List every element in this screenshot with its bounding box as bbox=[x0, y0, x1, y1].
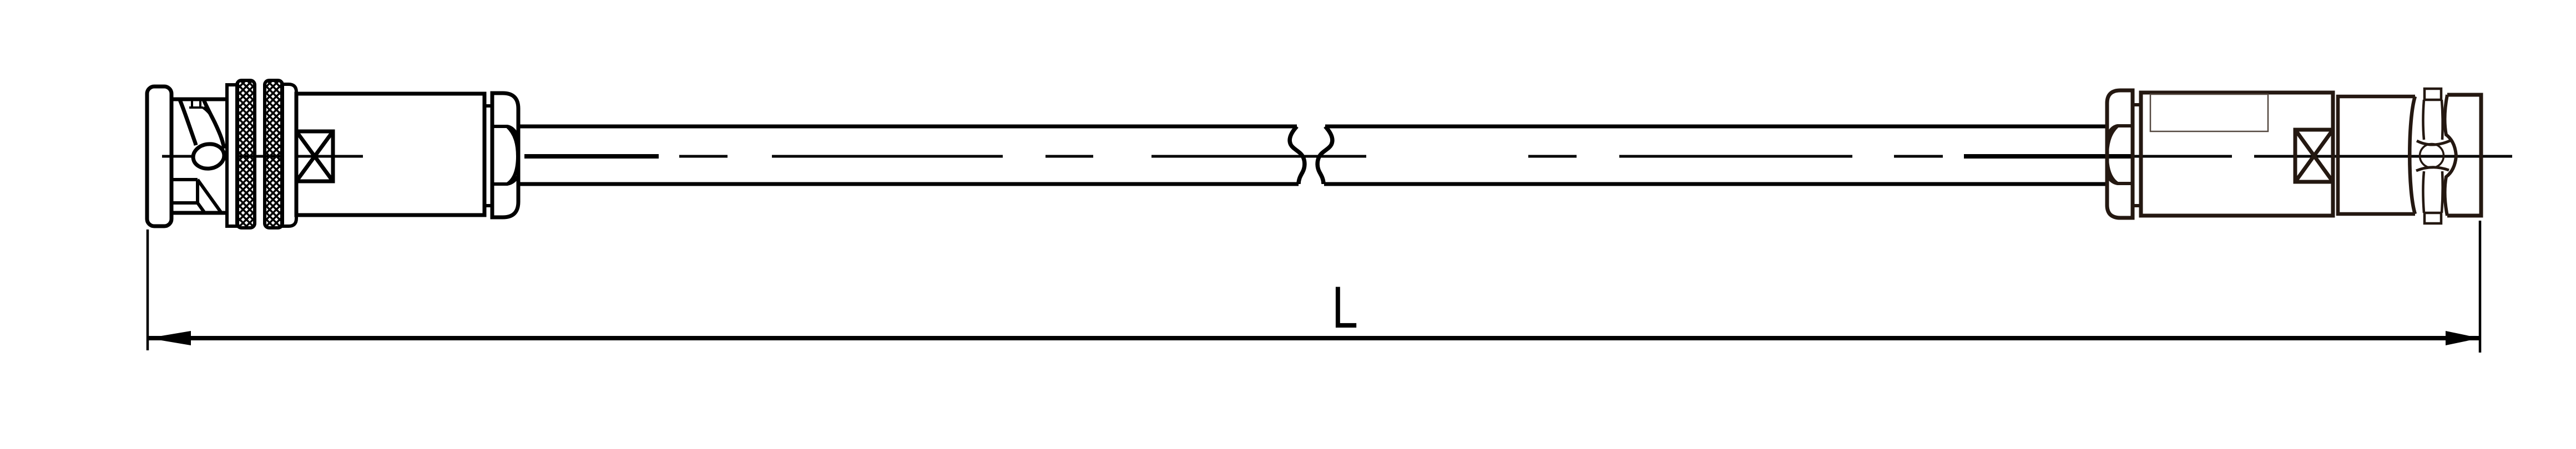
svg-text:L: L bbox=[1332, 275, 1358, 341]
